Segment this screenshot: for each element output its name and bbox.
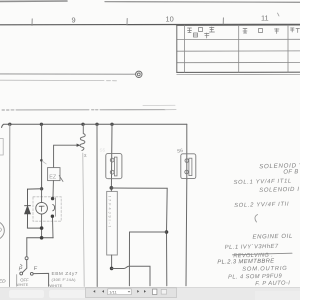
table header kanji col1 (parts number): [188, 27, 300, 38]
label P: [19, 264, 23, 272]
svg-text:(30E F'J4A): (30E F'J4A): [52, 277, 77, 282]
inline connector circle: [25, 257, 28, 260]
annotation engine oil block: [217, 234, 294, 288]
timer box (vertical label unit): [107, 191, 118, 255]
svg-text:WHITE: WHITE: [16, 283, 28, 287]
EZ unit wire to arrow: [54, 145, 77, 167]
label RED: [0, 279, 6, 285]
svg-text:SOL.1 YV/4F IT1L: SOL.1 YV/4F IT1L: [233, 178, 291, 186]
connector S5 wire upper: [110, 124, 113, 188]
ruler number 11: [261, 13, 269, 22]
EZ lower wire: [52, 181, 54, 197]
label WHITE left: [16, 283, 28, 287]
parts table: [177, 25, 300, 75]
start switch feed wire: [26, 238, 28, 257]
relay motor circle T: [36, 189, 48, 238]
node dot on V8: [165, 230, 169, 234]
timer lower wire: [111, 255, 113, 269]
label OFF: [20, 277, 29, 282]
wire from F contact: [33, 273, 48, 286]
left vertical wire V1: [9, 124, 11, 286]
svg-text:RED: RED: [0, 279, 6, 285]
svg-text:EZ: EZ: [49, 175, 57, 181]
arrow head pointing to fuse wire: [77, 144, 81, 147]
faint wire A2: [0, 79, 117, 82]
faint S5 label: [100, 148, 106, 153]
EZ label: [49, 175, 57, 181]
long wire A1 with terminal: [0, 73, 135, 75]
wire from node to V6: [130, 231, 167, 233]
svg-text:PL. 4 SOM P9FU9: PL. 4 SOM P9FU9: [228, 274, 282, 281]
relay top branch wire: [28, 188, 42, 190]
relay contact node dots: [51, 197, 55, 218]
ruler tick x127: [126, 18, 128, 25]
svg-text:SOM.OUTRIG: SOM.OUTRIG: [242, 266, 287, 273]
switch lever wire: [23, 260, 27, 273]
viewer toolbar: [86, 288, 177, 298]
switch enclosure edge: [16, 275, 18, 287]
start switch name label: [49, 271, 78, 288]
svg-text:ENGINE OIL: ENGINE OIL: [252, 234, 292, 241]
connector S5 body: [106, 154, 122, 179]
diode D1: [25, 189, 31, 228]
svg-text:SOL.2 YV/4F ITII: SOL.2 YV/4F ITII: [234, 202, 289, 209]
relay bottom wire lower: [27, 237, 53, 239]
solenoid branch corner from bus: [186, 124, 188, 179]
annotation solenoid block: [233, 162, 305, 209]
node dot bottom lower: [40, 236, 44, 240]
main bus wire: [2, 124, 187, 127]
svg-text:11: 11: [261, 13, 269, 22]
S6 lower wire: [185, 180, 188, 286]
viewer bottom strip: [0, 287, 300, 300]
svg-text:OF B: OF B: [283, 169, 299, 175]
terminal circle (circled dot): [136, 71, 142, 77]
label F: [34, 266, 38, 272]
EZ box: [48, 168, 63, 182]
svg-text:1/11: 1/11: [109, 289, 117, 294]
relay coil feed wire V2: [41, 124, 43, 188]
connector S6 body: [181, 154, 196, 179]
node dot below timer: [110, 267, 114, 271]
node dot below S5: [110, 186, 114, 190]
ruler number 9: [72, 15, 76, 24]
squiggle mark: [255, 215, 258, 223]
svg-text:PL.1 IVY`V3HhE7: PL.1 IVY`V3HhE7: [225, 244, 279, 251]
bus junction node dots: [8, 123, 114, 126]
timer vertical label: [108, 196, 112, 229]
fuse element zigzag wire: [80, 124, 85, 150]
svg-text:S5: S5: [100, 148, 106, 153]
mid vertical wire V6: [128, 232, 130, 286]
bottom wire with hop: [112, 266, 150, 286]
ruler tick x32: [31, 19, 33, 26]
fuse lower faint wire: [83, 153, 84, 287]
svg-text:F: F: [34, 266, 38, 272]
ruler number 10: [166, 15, 174, 24]
node dot bottom upper: [40, 226, 44, 230]
long vertical wire V4: [96, 124, 98, 286]
tick label on fuse wire: [85, 154, 87, 156]
sheet top edge left segment: [0, 0, 67, 2]
svg-text:10: 10: [166, 15, 174, 24]
relay top node dot: [40, 187, 43, 190]
connector S5 wire lower: [110, 188, 112, 192]
right branch vertical V8: [166, 188, 169, 285]
switch contact F: [30, 272, 33, 275]
long dashed wire B: [2, 105, 176, 110]
svg-text:PL.2.3 MEMTBBRE: PL.2.3 MEMTBBRE: [217, 258, 274, 265]
svg-text:SOLENOID I: SOLENOID I: [259, 187, 299, 194]
connector tick on V2: [40, 159, 46, 164]
svg-text:P: P: [19, 266, 23, 272]
S6 label: [177, 148, 184, 155]
left edge dashed box fragment: [0, 139, 3, 156]
svg-text:OFF: OFF: [20, 277, 29, 282]
sheet top edge right segment: [105, 1, 300, 4]
relay bottom wire upper: [27, 227, 41, 229]
ruler border line: [0, 23, 300, 26]
svg-text:9: 9: [72, 15, 76, 24]
svg-text:t7F4J9l-t: t7F4J9l-t: [108, 196, 112, 229]
left edge gauge circle fragment: [0, 221, 4, 240]
svg-text:F. P AUTO-I: F. P AUTO-I: [255, 280, 290, 287]
switch contact P: [20, 272, 23, 275]
relay outline dashed box: [33, 197, 61, 221]
strikethrough on revolving: [233, 253, 293, 255]
branch wire right from node: [111, 187, 167, 189]
relay contact branch: [53, 197, 56, 238]
pen mark speck: [278, 13, 280, 16]
ruler tick x223: [222, 18, 224, 25]
